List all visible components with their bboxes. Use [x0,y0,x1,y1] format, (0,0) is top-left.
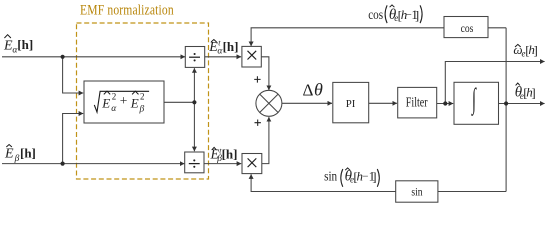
svg-text:[h]: [h] [222,146,238,161]
svg-text:[h]: [h] [223,39,239,54]
svg-text:E: E [4,147,14,162]
svg-text:β: β [139,104,145,114]
svg-text:2: 2 [112,91,117,101]
svg-text:PI: PI [346,98,356,110]
svg-text:]: ] [531,85,535,100]
svg-text:Δ: Δ [303,80,314,99]
svg-text:[h]: [h] [20,145,36,160]
svg-text:]: ] [372,169,376,184]
svg-text:]: ] [534,42,538,57]
svg-text:cos: cos [461,22,474,35]
svg-text:2: 2 [140,91,145,101]
svg-text:+: + [120,93,128,108]
svg-text:sin: sin [411,186,423,199]
svg-text:]: ] [415,7,419,22]
svg-text:E: E [101,95,110,110]
svg-text:Filter: Filter [406,94,428,110]
svg-text:E: E [130,95,139,110]
svg-text:[h]: [h] [17,37,33,52]
svg-text:β: β [14,154,20,164]
svg-text:sin: sin [324,168,338,183]
svg-text:cos: cos [368,7,383,22]
svg-text:−: − [363,172,369,183]
svg-text:EMF normalization: EMF normalization [80,1,174,18]
svg-text:θ: θ [314,80,323,100]
